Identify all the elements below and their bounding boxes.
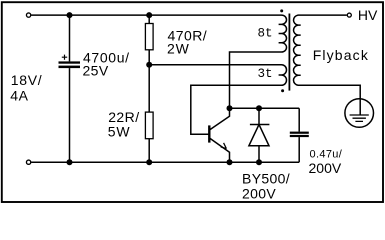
- node junction bottom of R2: [146, 159, 152, 165]
- transistor Q1 base bar: [208, 125, 210, 142]
- node junction top of R1: [146, 12, 152, 18]
- wire R1 top lead: [148, 15, 150, 23]
- ground earth symbol: [345, 99, 374, 128]
- svg-text:5W: 5W: [108, 124, 131, 140]
- svg-text:3t: 3t: [258, 67, 273, 81]
- svg-text:0.47u/: 0.47u/: [310, 149, 343, 161]
- transformer T1 primary 8t winding: [279, 15, 287, 52]
- wire bottom rail: [31, 161, 299, 163]
- diode D1 bottom lead: [258, 146, 260, 162]
- diode D1 top lead: [258, 108, 260, 124]
- resistor R2 22R/5W: [145, 112, 153, 139]
- node junction bottom of D1: [256, 159, 262, 165]
- capacitor C1 4700u/25V: [59, 61, 81, 63]
- wire 8t bottom to collector vertical: [230, 52, 282, 108]
- node junction bottom of C1: [67, 159, 73, 165]
- svg-text:HV: HV: [358, 7, 378, 23]
- transformer T1 core: [288, 14, 290, 91]
- input terminal + (open circle top-left): [26, 13, 30, 17]
- capacitor C2 0.47u/200V plates: [290, 132, 309, 134]
- svg-text:22R/: 22R/: [108, 109, 139, 125]
- input terminal - (open circle bottom-left): [26, 160, 30, 164]
- svg-text:18V/: 18V/: [11, 72, 43, 88]
- transformer T1 secondary winding: [293, 15, 360, 98]
- diode D1 triangle: [249, 125, 269, 146]
- capacitor C2 bottom lead: [298, 137, 300, 162]
- svg-text:25V: 25V: [83, 63, 109, 79]
- node junction emitter: [227, 159, 233, 165]
- svg-text:4A: 4A: [10, 87, 28, 103]
- node junction R1/R2/3t: [146, 62, 152, 68]
- wire C1 top lead: [69, 15, 71, 61]
- wire C1 bottom lead: [69, 68, 71, 162]
- wire R1 bottom lead: [148, 50, 150, 65]
- transformer T1 phase dot top: [280, 9, 283, 12]
- transformer T1 feedback 3t winding: [279, 65, 287, 86]
- svg-text:200V: 200V: [309, 160, 342, 176]
- svg-text:200V: 200V: [242, 186, 276, 202]
- transistor Q1 emitter arrow: [221, 143, 227, 149]
- svg-text:Flyback: Flyback: [313, 47, 369, 63]
- node junction collector: [227, 105, 233, 111]
- wire R2 bottom lead: [148, 139, 150, 162]
- svg-text:BY500/: BY500/: [242, 170, 290, 186]
- node junction top of C1: [67, 12, 73, 18]
- transistor Q1 emitter lead: [210, 138, 230, 162]
- wire R2 top lead: [148, 65, 150, 112]
- wire node to 3t top winding: [149, 64, 281, 66]
- svg-text:2W: 2W: [167, 40, 190, 56]
- node junction top of D1: [256, 105, 262, 111]
- wire 3t bottom lead to base: [191, 85, 282, 134]
- transistor Q1 collector lead: [210, 108, 230, 129]
- wire top rail: [31, 14, 281, 16]
- capacitor C2 top lead: [298, 108, 300, 131]
- wire collector node to diode/cap: [230, 107, 300, 109]
- resistor R1 470R/2W: [145, 24, 153, 50]
- terminal HV (open circle): [347, 13, 351, 17]
- transformer T1 phase dot bottom: [281, 89, 284, 92]
- svg-text:8t: 8t: [258, 26, 273, 40]
- polarity plus of C1: [62, 55, 67, 60]
- diode D1 cathode bar: [250, 124, 270, 126]
